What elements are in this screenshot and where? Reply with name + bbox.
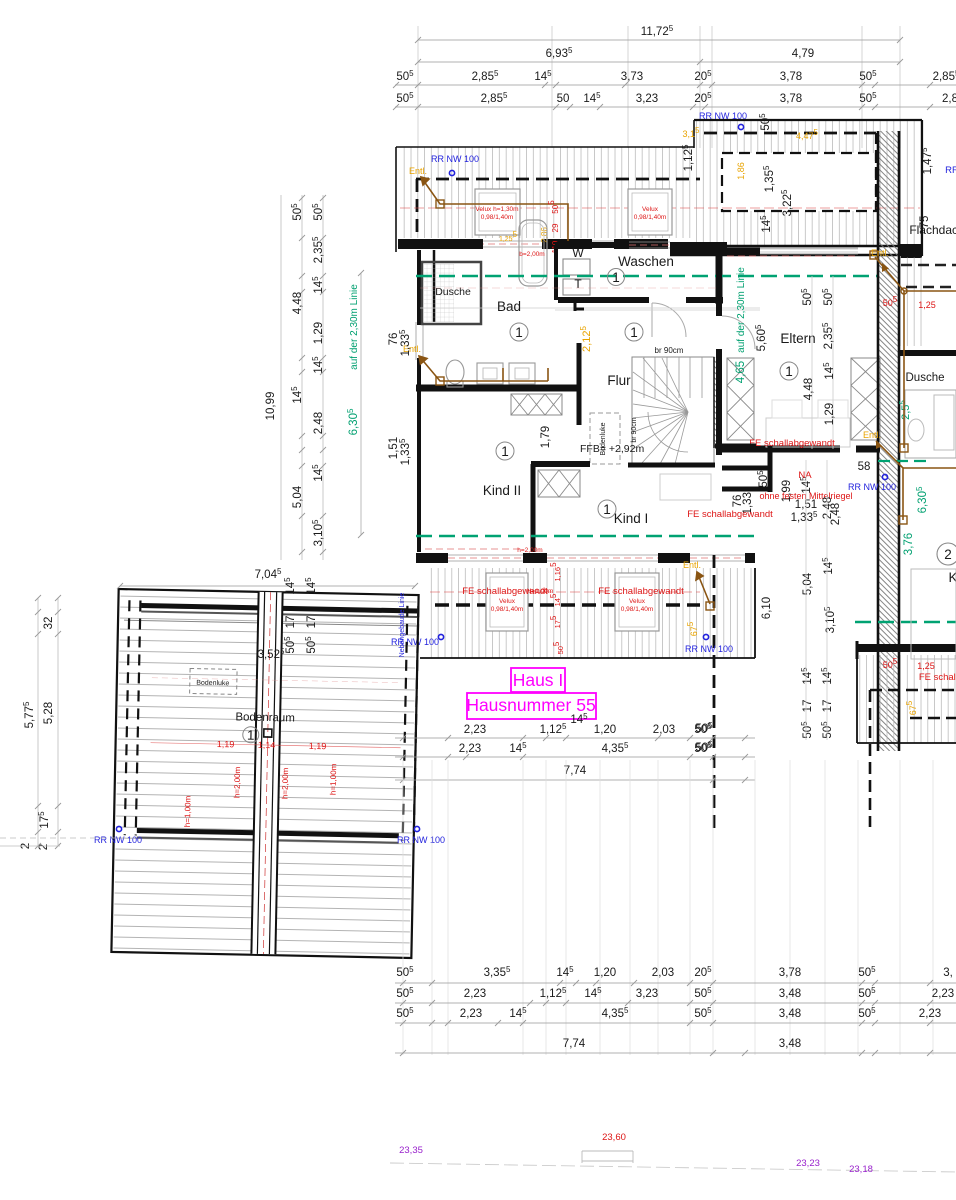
svg-text:T: T (574, 277, 582, 291)
svg-text:Entl.: Entl. (863, 430, 881, 440)
svg-text:1,86: 1,86 (736, 162, 746, 180)
svg-text:RR NW 100: RR NW 100 (848, 482, 896, 492)
svg-text:2,48: 2,48 (830, 503, 842, 525)
haus2 south roof strip (857, 655, 956, 743)
svg-text:7,74: 7,74 (564, 765, 587, 777)
svg-text:1,19: 1,19 (217, 739, 235, 749)
eltern wardrobes right (851, 358, 880, 440)
svg-text:7,74: 7,74 (563, 1038, 586, 1050)
svg-text:3,23: 3,23 (636, 93, 658, 105)
svg-text:10,99: 10,99 (265, 392, 277, 421)
svg-text:2: 2 (38, 844, 50, 850)
Bad fixtures: bathtub (519, 220, 547, 286)
south roof hatch strip (428, 568, 755, 658)
south knee wall segments (416, 553, 448, 563)
svg-text:76: 76 (388, 333, 400, 346)
svg-text:1,29: 1,29 (824, 403, 836, 425)
dashed verticals NE (875, 133, 877, 211)
basins (477, 363, 503, 384)
green dashed 2.30m line north (416, 275, 877, 278)
svg-text:RR NW 100: RR NW 100 (397, 835, 445, 845)
outbuilding roof hatch (113, 591, 416, 956)
pipe NW Entl (421, 177, 568, 241)
svg-text:b=2,00m: b=2,00m (519, 251, 544, 258)
wardrobe boxes flur (511, 394, 562, 415)
eave dashed line east (704, 132, 876, 135)
svg-text:1: 1 (785, 364, 793, 379)
svg-text:5,04: 5,04 (292, 485, 304, 508)
small wall notch below W/T (574, 300, 577, 311)
svg-text:Flur: Flur (607, 373, 631, 388)
svg-text:Entl.: Entl. (871, 248, 889, 258)
svg-text:FE schalla: FE schalla (919, 672, 956, 683)
red line kind (425, 548, 520, 550)
bodenluke dashed (190, 668, 237, 694)
svg-text:K: K (948, 570, 956, 585)
svg-text:h=2,00m: h=2,00m (233, 766, 243, 798)
svg-text:RR NW 100: RR NW 100 (94, 835, 142, 845)
rotated outbuilding group (111, 589, 418, 958)
svg-text:1,25: 1,25 (918, 300, 936, 310)
svg-text:auf der 2,30m Linie: auf der 2,30m Linie (349, 284, 360, 370)
eltern top wall (727, 248, 760, 255)
svg-text:17: 17 (306, 616, 318, 629)
svg-text:5,28: 5,28 (43, 702, 55, 724)
svg-text:2,48: 2,48 (313, 412, 325, 434)
svg-text:Waschen: Waschen (618, 254, 674, 269)
svg-text:58: 58 (858, 461, 871, 473)
svg-text:Hausnummer 55: Hausnummer 55 (466, 695, 595, 715)
svg-text:0,98/1,40m: 0,98/1,40m (481, 214, 514, 221)
svg-text:FFB= +2,92m: FFB= +2,92m (580, 443, 644, 455)
haus2 dusche fixtures (905, 390, 956, 458)
svg-text:17: 17 (822, 700, 834, 713)
svg-text:0,98/1,40m: 0,98/1,40m (634, 214, 667, 221)
stair right wall hatched (714, 357, 720, 448)
svg-text:1: 1 (630, 325, 638, 340)
svg-text:32: 32 (43, 617, 55, 630)
svg-text:2,03: 2,03 (652, 967, 674, 979)
svg-text:2,23: 2,23 (459, 743, 481, 755)
svg-text:29: 29 (551, 223, 560, 232)
svg-text:3,48: 3,48 (779, 1008, 801, 1020)
washer dryer boxes (563, 259, 590, 275)
velux roof window 2 (628, 189, 672, 235)
svg-text:Velux: Velux (499, 598, 516, 605)
svg-text:auf der 2,30m Linie: auf der 2,30m Linie (736, 267, 747, 353)
circle 1 waschen (608, 269, 625, 286)
svg-text:RR: RR (945, 165, 956, 176)
svg-text:17: 17 (802, 700, 814, 713)
pipe Bad (419, 356, 548, 381)
roof outline west edge (395, 147, 397, 252)
Hausnummer label (467, 693, 596, 719)
svg-text:FE schallabgewandt: FE schallabgewandt (687, 509, 773, 520)
svg-text:3,23: 3,23 (636, 988, 658, 1000)
svg-text:17: 17 (285, 616, 297, 629)
Bad bottom wall (416, 385, 580, 392)
svg-text:1,19: 1,19 (309, 741, 327, 751)
stair bottom wall (628, 463, 715, 468)
svg-text:Kind I: Kind I (614, 511, 649, 526)
kind I furniture (660, 474, 711, 500)
eltern south wall (722, 446, 840, 453)
eltern stair wall (716, 245, 722, 316)
svg-text:FE schallabgewandt: FE schallabgewandt (598, 586, 684, 597)
svg-text:Dusche: Dusche (906, 372, 945, 384)
eave dashed line west (416, 178, 700, 181)
haus2 nw hatch (899, 256, 922, 346)
knee wall west segments (398, 239, 477, 249)
eltern wardrobes left (727, 358, 754, 440)
roof step vertical (693, 120, 695, 148)
svg-text:1: 1 (603, 502, 611, 517)
outbuilding left dim chains (37, 598, 39, 846)
bodenluke flur dashed (590, 413, 620, 464)
svg-text:2,8: 2,8 (942, 93, 956, 105)
svg-text:3,: 3, (943, 967, 953, 979)
north roof hatch strip west (398, 147, 694, 238)
svg-text:1: 1 (247, 728, 255, 743)
svg-text:4,79: 4,79 (792, 48, 814, 60)
svg-text:Bad: Bad (497, 299, 521, 314)
eave dashed west vertical (416, 179, 419, 248)
svg-text:h=1,00m: h=1,00m (183, 795, 193, 827)
svg-text:Velux: Velux (629, 598, 646, 605)
svg-text:3,78: 3,78 (780, 71, 802, 83)
north roof hatch strip east (694, 120, 922, 245)
svg-text:23,23: 23,23 (796, 1158, 820, 1169)
svg-text:2,23: 2,23 (464, 988, 486, 1000)
svg-text:23,35: 23,35 (399, 1145, 423, 1156)
svg-text:Flachdach: Flachdach (909, 223, 956, 237)
party wall double with hatch (878, 131, 899, 751)
svg-text:Velux h=1,30m: Velux h=1,30m (475, 206, 518, 213)
svg-text:0,98/1,40m: 0,98/1,40m (491, 606, 524, 613)
Haus I label (511, 668, 565, 692)
svg-text:1: 1 (501, 444, 509, 459)
svg-text:W: W (572, 246, 584, 260)
Kind walls top (531, 461, 590, 467)
Waschen top wall (555, 242, 629, 248)
Waschen/Eltern wall (716, 245, 723, 304)
svg-text:3,73: 3,73 (621, 71, 643, 83)
svg-text:1,79: 1,79 (540, 426, 552, 448)
svg-text:3,76: 3,76 (903, 533, 915, 555)
svg-text:br 90cm: br 90cm (655, 346, 684, 355)
Waschen bottom wall (558, 297, 649, 303)
outbuilding outline (111, 589, 418, 958)
stair block (632, 357, 714, 465)
svg-text:1: 1 (515, 325, 523, 340)
pipe SE (696, 572, 710, 604)
bottom dim rows (395, 982, 956, 984)
svg-text:3,78: 3,78 (780, 93, 802, 105)
outbuilding top dim chains (120, 585, 415, 587)
svg-text:RR NW 100: RR NW 100 (431, 154, 479, 164)
svg-text:Kind II: Kind II (483, 483, 521, 498)
faint construction verticals (402, 760, 404, 1055)
haus2 walls dusche (899, 350, 956, 356)
svg-text:4,48: 4,48 (292, 292, 304, 314)
svg-text:RR NW 100: RR NW 100 (685, 644, 733, 654)
svg-text:2: 2 (944, 547, 952, 562)
svg-text:Eltern: Eltern (780, 331, 815, 346)
svg-text:2,23: 2,23 (919, 1008, 941, 1020)
dashed attic room outline (722, 153, 876, 211)
velux south 1 (486, 573, 528, 631)
knee wall east (670, 245, 921, 248)
green dashed 2.30m line south (416, 535, 758, 538)
svg-text:NA: NA (798, 470, 812, 481)
svg-text:0,98/1,40m: 0,98/1,40m (621, 606, 654, 613)
svg-text:Entl.: Entl. (409, 166, 427, 176)
red construction line south (430, 591, 700, 593)
south eave bottom line (420, 657, 755, 659)
roof outline top east (694, 119, 922, 121)
red construction lines (151, 743, 401, 748)
svg-text:2,23: 2,23 (464, 724, 486, 736)
svg-text:23,60: 23,60 (602, 1132, 626, 1143)
eltern door arc (722, 316, 755, 349)
svg-text:6,10: 6,10 (761, 597, 773, 619)
roof outline east edge (921, 120, 923, 256)
svg-text:h=1,00m: h=1,00m (329, 763, 339, 795)
svg-text:4,65: 4,65 (735, 361, 747, 383)
svg-text:50: 50 (557, 93, 570, 105)
south dashed eave (435, 603, 700, 606)
svg-text:4,48: 4,48 (803, 378, 815, 400)
roof outline top west (396, 146, 694, 148)
svg-text:2,855: 2,855 (933, 69, 956, 83)
svg-text:1,51: 1,51 (388, 437, 400, 459)
haus2 window boxes kind (911, 569, 956, 659)
svg-text:Bodenluke: Bodenluke (196, 680, 229, 688)
top dimension chains (417, 26, 419, 148)
door arc Waschen (652, 303, 686, 337)
svg-text:h=2,00m: h=2,00m (281, 767, 291, 799)
center shaft (251, 592, 282, 954)
red construction line through velux (400, 207, 920, 209)
svg-text:3,78: 3,78 (779, 967, 801, 979)
haus2 south dashed (870, 689, 956, 692)
velux south 2 (615, 573, 659, 631)
stair SE landing walls (715, 444, 756, 449)
svg-text:2,23: 2,23 (460, 1008, 482, 1020)
attic headroom dashed room (white) (722, 153, 876, 211)
svg-text:1,20: 1,20 (594, 724, 616, 736)
svg-text:2,86: 2,86 (540, 227, 549, 243)
svg-text:h=2,00m: h=2,00m (517, 547, 542, 554)
top heavy band (141, 605, 417, 611)
toilet (446, 360, 464, 384)
svg-text:3,48: 3,48 (779, 1038, 801, 1050)
svg-text:1,14: 1,14 (258, 740, 276, 750)
svg-text:RR NW 100: RR NW 100 (699, 111, 747, 121)
svg-text:1,25: 1,25 (917, 661, 935, 671)
mid dim rows (395, 737, 755, 739)
bottom level annotations (390, 1163, 956, 1172)
svg-text:Haus I: Haus I (513, 670, 564, 690)
svg-text:FE schallabgewandt: FE schallabgewandt (749, 438, 835, 449)
velux roof window 1 (475, 189, 520, 235)
west outer wall (417, 250, 421, 325)
eltern knee window top right (760, 247, 858, 249)
svg-text:Dusche: Dusche (435, 286, 471, 298)
Dusche enclosure (422, 262, 481, 324)
haus2 south wall (857, 644, 956, 652)
svg-text:Velux: Velux (642, 206, 659, 213)
svg-text:br 90cm: br 90cm (631, 417, 638, 442)
svg-text:1,29: 1,29 (313, 322, 325, 344)
left dim chains (280, 195, 282, 560)
wall flur left vertical (577, 343, 582, 425)
pipe NE (875, 257, 956, 520)
wall W/T left (554, 245, 558, 300)
haus2 green south (855, 621, 956, 624)
svg-text:Entl.: Entl. (683, 560, 701, 570)
svg-text:Nebengebaude Linie: Nebengebaude Linie (399, 593, 406, 658)
kind closet (538, 470, 580, 497)
dashed wall lines (125, 600, 130, 835)
svg-text:23,18: 23,18 (849, 1164, 873, 1175)
eltern inner dim chains (811, 276, 813, 449)
svg-text:5,04: 5,04 (802, 572, 814, 595)
svg-text:Bodenraum: Bodenraum (235, 711, 295, 724)
bottom heavy band (137, 830, 399, 835)
svg-text:2,03: 2,03 (653, 724, 675, 736)
svg-text:1: 1 (612, 270, 620, 285)
svg-text:1,20: 1,20 (594, 967, 616, 979)
svg-text:2,23: 2,23 (932, 988, 954, 1000)
svg-text:3,48: 3,48 (779, 988, 801, 1000)
